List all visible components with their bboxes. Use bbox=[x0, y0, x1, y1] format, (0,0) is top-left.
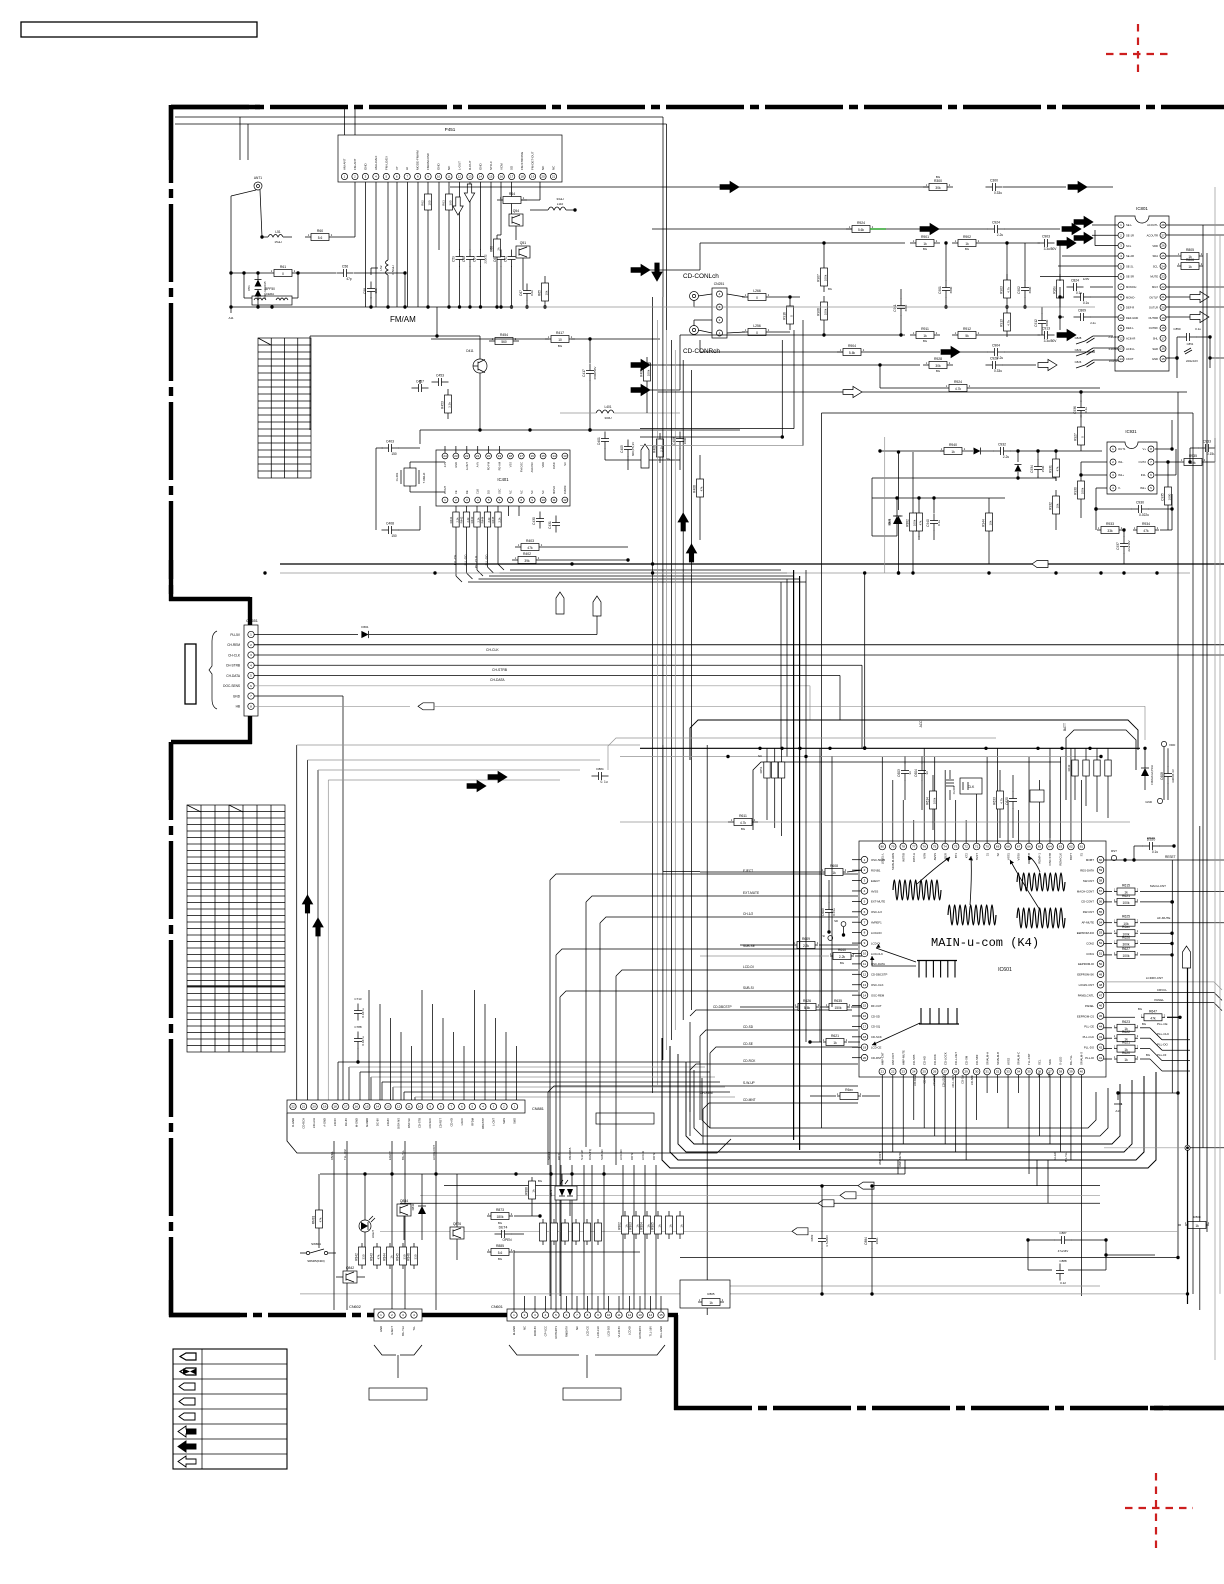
resistor R944 10k bbox=[982, 498, 993, 564]
svg-text:R873: R873 bbox=[496, 1208, 504, 1212]
verticals left of IC601 bbox=[663, 570, 832, 1315]
svg-text:CN602: CN602 bbox=[349, 1305, 361, 1309]
svg-text:GND: GND bbox=[454, 462, 458, 468]
svg-text:R640: R640 bbox=[838, 948, 846, 952]
filter caps C901 6800 bbox=[938, 241, 953, 308]
svg-text:2-2u/50V: 2-2u/50V bbox=[1108, 335, 1119, 339]
svg-text:72: 72 bbox=[964, 845, 968, 849]
blank box under CN601 bbox=[563, 1388, 621, 1400]
svg-text:CD-SM: CD-SM bbox=[961, 1074, 965, 1084]
transistor Q876 bbox=[450, 1174, 464, 1260]
svg-text:5.6: 5.6 bbox=[318, 236, 323, 240]
svg-text:D401: D401 bbox=[597, 437, 601, 445]
resistor R934 47k bbox=[1133, 509, 1172, 534]
svg-text:EXT-MUTE: EXT-MUTE bbox=[743, 891, 759, 895]
svg-text:TLL: TLL bbox=[412, 1326, 416, 1331]
svg-text:1k: 1k bbox=[832, 871, 836, 875]
svg-text:CD-CONRch: CD-CONRch bbox=[683, 348, 720, 355]
svg-text:BG: BG bbox=[1142, 1022, 1146, 1026]
legend table of wire-tag symbols bbox=[173, 1349, 287, 1469]
svg-text:R625: R625 bbox=[1122, 915, 1130, 919]
input coupling caps C824/C820/C809 bbox=[1058, 277, 1118, 330]
svg-text:18: 18 bbox=[334, 1105, 338, 1109]
svg-text:KT2: KT2 bbox=[964, 853, 968, 859]
svg-text:0.15u: 0.15u bbox=[1207, 452, 1215, 456]
svg-text:R802: R802 bbox=[618, 1222, 622, 1230]
svg-text:C824: C824 bbox=[1071, 279, 1079, 283]
svg-text:IN2-: IN2- bbox=[1141, 473, 1146, 477]
svg-text:CD-STB: CD-STB bbox=[912, 1054, 916, 1065]
wire horizontal main rail y564 bbox=[280, 562, 1224, 565]
svg-text:12: 12 bbox=[628, 1313, 632, 1317]
svg-text:SP/ALM-A: SP/ALM-A bbox=[985, 1052, 989, 1065]
svg-text:15: 15 bbox=[489, 175, 493, 179]
svg-text:AM-LO/EX: AM-LO/EX bbox=[374, 156, 378, 170]
svg-text:11: 11 bbox=[1119, 326, 1122, 330]
svg-text:SDA: SDA bbox=[1152, 254, 1158, 258]
capacitor C924 2.2u bbox=[988, 221, 1061, 238]
resistor R935 10k bbox=[1155, 438, 1215, 466]
resistor R885 5.6 bbox=[487, 1244, 640, 1261]
svg-text:5-6k: 5-6k bbox=[849, 351, 856, 355]
tuner pin pulldown components row bbox=[366, 182, 516, 309]
Rch filter network R911/R912 bbox=[631, 327, 1076, 396]
resistor R611 4.7k BG bbox=[620, 814, 1130, 831]
svg-text:AMP-CNT: AMP-CNT bbox=[881, 1052, 885, 1065]
resistor R647 47k bbox=[1104, 1007, 1182, 1021]
svg-text:BG: BG bbox=[741, 827, 745, 831]
capacitor C63 0.022 bbox=[519, 284, 534, 309]
svg-text:BG: BG bbox=[828, 287, 832, 291]
svg-text:38: 38 bbox=[1059, 1070, 1063, 1074]
svg-text:13: 13 bbox=[386, 1105, 390, 1109]
resistor R66 2k bbox=[490, 235, 502, 309]
svg-text:68: 68 bbox=[1006, 845, 1010, 849]
comb mark upper inside IC601 bbox=[917, 960, 957, 962]
svg-text:CD-SM: CD-SM bbox=[964, 1055, 968, 1065]
svg-text:FM-ANT: FM-ANT bbox=[353, 159, 357, 170]
svg-text:S-LED: S-LED bbox=[1053, 1152, 1057, 1160]
wire under top frame to CN251 feed bbox=[175, 117, 667, 330]
svg-text:R916: R916 bbox=[783, 312, 787, 320]
wires IC601 left pin leads bbox=[852, 860, 861, 1058]
svg-text:DSP-SC: DSP-SC bbox=[407, 1118, 411, 1128]
registration cross top-right (red) bbox=[1106, 24, 1171, 74]
svg-text:SP/ALM-S: SP/ALM-S bbox=[1080, 1052, 1084, 1065]
svg-text:BG: BG bbox=[498, 1257, 502, 1261]
svg-text:16: 16 bbox=[500, 175, 504, 179]
wire top rail y339 bbox=[431, 338, 549, 340]
resistor R888 1k bbox=[525, 1177, 543, 1216]
svg-text:R621: R621 bbox=[1122, 894, 1130, 898]
svg-text:20: 20 bbox=[487, 454, 491, 458]
svg-text:CON2: CON2 bbox=[1086, 941, 1094, 945]
svg-text:VDD: VDD bbox=[1152, 244, 1158, 248]
svg-text:66: 66 bbox=[1027, 845, 1031, 849]
svg-text:CD-REM: CD-REM bbox=[913, 1074, 917, 1086]
svg-text:C903: C903 bbox=[1042, 235, 1050, 239]
resistor R402 39k bbox=[512, 552, 630, 564]
legend symbol row6 half-filled arrow bbox=[178, 1426, 196, 1437]
svg-text:NC: NC bbox=[758, 754, 762, 758]
svg-text:R453: R453 bbox=[441, 401, 445, 409]
svg-text:EJECT: EJECT bbox=[390, 1326, 394, 1335]
svg-text:C850: C850 bbox=[1173, 327, 1181, 331]
IC IC801 (DIP-28 audio processor) bbox=[1115, 206, 1169, 371]
svg-text:AM-OSC: AM-OSC bbox=[530, 462, 534, 473]
svg-text:MACH-CNT: MACH-CNT bbox=[1150, 884, 1166, 888]
svg-text:150: 150 bbox=[391, 452, 397, 456]
wire rail y451 to IC931 bbox=[878, 449, 944, 452]
svg-text:D51: D51 bbox=[247, 285, 251, 291]
svg-text:28: 28 bbox=[954, 1070, 958, 1074]
svg-text:10: 10 bbox=[607, 1313, 611, 1317]
svg-text:OUTRR: OUTRR bbox=[1148, 316, 1158, 320]
diode D601 FM/AM-G2 PS/H bbox=[1141, 747, 1175, 800]
svg-text:EEPROM-CS: EEPROM-CS bbox=[1077, 1014, 1094, 1018]
FET Q411 (D411) bbox=[466, 349, 487, 430]
svg-text:R904: R904 bbox=[848, 344, 856, 348]
svg-text:CH-DATA: CH-DATA bbox=[226, 674, 241, 678]
svg-text:LCD-DO: LCD-DO bbox=[607, 1326, 611, 1336]
svg-text:SUB-SE: SUB-SE bbox=[743, 944, 755, 948]
svg-text:10: 10 bbox=[1119, 316, 1123, 320]
svg-text:60: 60 bbox=[1099, 858, 1103, 862]
wire CH-DATA with label bbox=[255, 676, 841, 721]
svg-text:C620: C620 bbox=[1005, 797, 1009, 805]
svg-text:AMP-MUTE: AMP-MUTE bbox=[901, 1050, 905, 1065]
varactor VT line resistor R64 bbox=[497, 182, 540, 204]
svg-text:A-GND: A-GND bbox=[323, 1118, 327, 1127]
resistor row R842-R846 bbox=[355, 1243, 418, 1269]
svg-text:76: 76 bbox=[923, 845, 927, 849]
wire CD gnd mid rail bbox=[860, 306, 1095, 308]
svg-text:17: 17 bbox=[510, 175, 514, 179]
svg-text:MUTE: MUTE bbox=[1150, 275, 1158, 279]
svg-text:L-CNT: L-CNT bbox=[491, 1118, 495, 1126]
svg-text:4.7k: 4.7k bbox=[955, 387, 961, 391]
svg-text:PLL-DI: PLL-DI bbox=[1157, 1053, 1167, 1057]
svg-text:R300: R300 bbox=[934, 179, 942, 183]
svg-text:R843: R843 bbox=[370, 1253, 374, 1261]
svg-text:CD-LOCK: CD-LOCK bbox=[943, 1052, 947, 1065]
svg-text:6800: 6800 bbox=[904, 304, 908, 311]
svg-text:CD-SQ: CD-SQ bbox=[871, 1025, 881, 1029]
resistor R805 1k bbox=[1166, 248, 1203, 260]
wire CD L-ch feed bbox=[727, 294, 745, 333]
svg-text:22: 22 bbox=[1161, 285, 1165, 289]
resistor column x625-x658 bbox=[618, 1211, 684, 1239]
power bus ACC above IC601 (rounded corners) bbox=[608, 720, 1138, 830]
svg-text:23: 23 bbox=[454, 454, 458, 458]
svg-text:19: 19 bbox=[323, 1105, 327, 1109]
svg-text:Q51: Q51 bbox=[520, 241, 527, 245]
svg-text:1k: 1k bbox=[669, 1224, 673, 1228]
caps C604/C605 top bbox=[897, 757, 929, 811]
svg-text:Q842: Q842 bbox=[346, 1266, 354, 1270]
resistor R873 180k bbox=[487, 1208, 542, 1225]
capacitor D884 0.1u mid bbox=[592, 767, 609, 784]
svg-text:C884: C884 bbox=[864, 1237, 868, 1245]
capacitor C605 0.01u bbox=[821, 880, 836, 934]
capacitor C430 cluster bbox=[509, 506, 561, 533]
svg-text:OUT1: OUT1 bbox=[1118, 447, 1126, 451]
connector CN601 bbox=[491, 1305, 668, 1338]
svg-text:CD-FOK: CD-FOK bbox=[933, 1054, 937, 1065]
svg-text:VSN: VSN bbox=[922, 853, 926, 859]
wires IC601 bottom pin leads into wrap bus bbox=[882, 1075, 1081, 1296]
svg-text:0.1u: 0.1u bbox=[937, 520, 941, 526]
pullup resistors R651-R653 100k bbox=[758, 748, 785, 836]
svg-text:C788: C788 bbox=[354, 1025, 362, 1029]
svg-text:20: 20 bbox=[1161, 306, 1165, 310]
svg-text:C64: C64 bbox=[473, 256, 477, 262]
svg-text:31: 31 bbox=[985, 1070, 989, 1074]
svg-text:CN251: CN251 bbox=[714, 282, 725, 286]
svg-text:C430: C430 bbox=[532, 517, 536, 525]
Lch filter network R901/R902 bbox=[631, 235, 1076, 276]
capacitor C883 4.7u/50V bbox=[810, 1184, 829, 1295]
svg-text:CD-LOCK: CD-LOCK bbox=[942, 1075, 946, 1087]
resistor R608 1k left of pin2 bbox=[700, 864, 862, 876]
svg-text:47k: 47k bbox=[1056, 466, 1060, 471]
svg-text:18: 18 bbox=[509, 454, 513, 458]
svg-text:0: 0 bbox=[756, 331, 758, 335]
svg-text:DEF-GND: DEF-GND bbox=[1126, 316, 1138, 320]
svg-text:3.3k: 3.3k bbox=[448, 402, 452, 408]
wire horizontals into cn881 zone bbox=[338, 1062, 735, 1104]
svg-text:OSC-STB: OSC-STB bbox=[1048, 853, 1052, 866]
wire HB with tag bbox=[255, 703, 1146, 740]
svg-text:3-3u/50V: 3-3u/50V bbox=[1108, 347, 1119, 351]
svg-text:VCM: VCM bbox=[499, 163, 503, 170]
svg-text:DEF-L: DEF-L bbox=[1126, 326, 1134, 330]
svg-text:RM-DATA: RM-DATA bbox=[568, 1148, 572, 1160]
wire drops below cluster to CN601 bbox=[514, 1250, 661, 1311]
svg-text:CD-L-DET: CD-L-DET bbox=[951, 1075, 955, 1088]
svg-text:C940: C940 bbox=[926, 519, 930, 527]
legend symbol row3 tag bbox=[179, 1383, 195, 1390]
svg-text:75: 75 bbox=[933, 845, 937, 849]
svg-text:100k: 100k bbox=[1081, 487, 1085, 494]
legend symbol row5 tag bbox=[179, 1413, 195, 1420]
svg-text:FM/AM-G2,PS/H: FM/AM-G2,PS/H bbox=[1150, 765, 1154, 785]
wires IC601 top pin leads bbox=[882, 748, 1081, 843]
svg-text:51: 51 bbox=[1099, 952, 1103, 956]
wire bus above IC401 bbox=[310, 307, 480, 430]
svg-text:70: 70 bbox=[985, 845, 989, 849]
svg-text:DSP-12V/415: DSP-12V/415 bbox=[263, 281, 267, 299]
svg-text:AVSS: AVSS bbox=[933, 853, 937, 860]
pullups right R643-R646 bbox=[1067, 748, 1111, 818]
svg-text:SHR: SHR bbox=[1152, 347, 1158, 351]
svg-text:R623: R623 bbox=[1122, 1020, 1130, 1024]
capacitor C403 bbox=[376, 440, 399, 531]
svg-text:V-: V- bbox=[1118, 486, 1121, 490]
reset circuit Q602/C620 bbox=[1005, 775, 1050, 838]
svg-text:GND: GND bbox=[1145, 800, 1153, 804]
svg-text:MODE-FM/AM: MODE-FM/AM bbox=[416, 150, 420, 170]
resistor R635 150k bbox=[826, 999, 862, 1011]
svg-text:1k: 1k bbox=[1188, 265, 1192, 269]
svg-text:EEPROM-DI: EEPROM-DI bbox=[1078, 962, 1094, 966]
svg-text:R-OUT: R-OUT bbox=[468, 160, 472, 170]
svg-text:OUTLR: OUTLR bbox=[1149, 306, 1158, 310]
svg-text:0: 0 bbox=[282, 272, 284, 276]
svg-text:X-OUT: X-OUT bbox=[443, 486, 447, 494]
svg-text:69: 69 bbox=[996, 845, 1000, 849]
svg-text:1500: 1500 bbox=[1041, 465, 1045, 472]
svg-text:FM/AM: FM/AM bbox=[390, 315, 416, 324]
wire GND drop bbox=[255, 696, 344, 1104]
svg-text:PLL-DI: PLL-DI bbox=[1085, 1056, 1094, 1060]
PLL IC401 (DIP-24) bbox=[436, 446, 570, 506]
svg-text:R445: R445 bbox=[491, 516, 495, 523]
arrow up on bus 2 bbox=[686, 544, 696, 562]
wire rail y757 above IC601 bbox=[620, 755, 1103, 758]
capacitor C930 0.022u feedback bbox=[1094, 494, 1173, 517]
svg-text:C608: C608 bbox=[1160, 772, 1164, 780]
svg-text:NC: NC bbox=[541, 490, 545, 494]
svg-text:L51: L51 bbox=[275, 230, 281, 234]
svg-text:560: 560 bbox=[501, 340, 507, 344]
svg-text:M-GND: M-GND bbox=[354, 1118, 358, 1127]
svg-text:22: 22 bbox=[891, 1070, 895, 1074]
svg-text:SI: SI bbox=[822, 934, 825, 938]
svg-text:55: 55 bbox=[1099, 910, 1103, 914]
capacitor C64 220p/32V bbox=[480, 250, 482, 257]
svg-text:R804: R804 bbox=[640, 1222, 644, 1230]
svg-text:MONOH: MONOH bbox=[1126, 285, 1136, 289]
pll supply tag bbox=[641, 444, 649, 468]
svg-text:CD-5V: CD-5V bbox=[333, 1118, 337, 1126]
svg-text:R633: R633 bbox=[993, 797, 997, 805]
svg-text:DE: DE bbox=[465, 490, 469, 494]
svg-text:330: 330 bbox=[414, 1254, 418, 1259]
svg-text:R888: R888 bbox=[525, 1187, 529, 1195]
svg-text:2-2u: 2-2u bbox=[1090, 321, 1096, 325]
svg-text:5.6k: 5.6k bbox=[858, 228, 864, 232]
svg-text:ACIN-L: ACIN-L bbox=[1126, 347, 1135, 351]
svg-text:C930: C930 bbox=[1136, 501, 1144, 505]
svg-text:L401: L401 bbox=[604, 405, 611, 409]
svg-text:0.047u: 0.047u bbox=[361, 1008, 365, 1018]
svg-text:3.3u/50V: 3.3u/50V bbox=[1044, 339, 1058, 343]
svg-text:S2: S2 bbox=[996, 853, 1000, 857]
svg-text:5-6k: 5-6k bbox=[804, 1006, 811, 1010]
resistor R916 0 vertical bbox=[783, 295, 794, 330]
inductor L266 0 bbox=[742, 289, 800, 301]
svg-text:EJECT: EJECT bbox=[388, 1151, 392, 1160]
svg-text:100n: 100n bbox=[875, 1237, 879, 1244]
svg-text:11: 11 bbox=[552, 498, 555, 502]
svg-text:CLK: CLK bbox=[476, 489, 480, 494]
svg-text:C67: C67 bbox=[519, 290, 523, 296]
svg-text:ANT1: ANT1 bbox=[254, 176, 262, 180]
svg-text:R805: R805 bbox=[1186, 248, 1194, 252]
svg-text:LOCK: LOCK bbox=[460, 1118, 464, 1126]
svg-text:NC: NC bbox=[530, 490, 534, 494]
svg-text:CP-VCC: CP-VCC bbox=[544, 1326, 548, 1336]
svg-text:59: 59 bbox=[1099, 868, 1103, 872]
svg-text:TLL-16V: TLL-16V bbox=[343, 1149, 347, 1160]
svg-text:R912: R912 bbox=[963, 327, 971, 331]
svg-text:ACOUTR: ACOUTR bbox=[1147, 234, 1158, 238]
capacitor C913 3.3u/50V bbox=[1038, 327, 1058, 344]
svg-text:B/L-TLA: B/L-TLA bbox=[401, 1326, 405, 1336]
svg-text:CRVCL: CRVCL bbox=[1157, 988, 1167, 992]
svg-text:LCDIN-CNT: LCDIN-CNT bbox=[432, 1145, 436, 1160]
svg-text:BT1: BT1 bbox=[954, 853, 958, 859]
svg-text:20: 20 bbox=[541, 175, 545, 179]
legend symbol row8 outline arrow bbox=[178, 1456, 196, 1467]
svg-text:1k: 1k bbox=[1124, 1058, 1128, 1062]
svg-text:SHL: SHL bbox=[1153, 337, 1159, 341]
cap C902 6800 bbox=[1017, 243, 1032, 309]
svg-text:10: 10 bbox=[863, 952, 867, 956]
svg-text:OUTRF: OUTRF bbox=[1149, 326, 1159, 330]
resistor R65 10k bbox=[538, 276, 549, 309]
svg-text:BATT: BATT bbox=[1069, 853, 1073, 860]
svg-text:100k: 100k bbox=[1123, 901, 1130, 905]
svg-text:C60: C60 bbox=[462, 256, 466, 262]
svg-text:B/L-TLL: B/L-TLL bbox=[401, 1150, 405, 1160]
svg-text:R911: R911 bbox=[921, 327, 929, 331]
svg-text:1000: 1000 bbox=[1168, 493, 1172, 500]
svg-text:48: 48 bbox=[1099, 983, 1103, 987]
wire tag on rail y564 bbox=[1032, 561, 1048, 568]
svg-text:AM-ANT: AM-ANT bbox=[343, 158, 347, 170]
svg-text:10k: 10k bbox=[545, 290, 549, 295]
svg-text:C417: C417 bbox=[582, 369, 586, 377]
capacitor C300 0.33u bbox=[986, 179, 1114, 196]
svg-text:C932: C932 bbox=[998, 443, 1006, 447]
svg-text:1k: 1k bbox=[965, 242, 969, 246]
resistor R924 5.6k on mix line bbox=[652, 221, 988, 235]
svg-text:GND: GND bbox=[437, 163, 441, 171]
svg-text:39: 39 bbox=[1069, 1070, 1073, 1074]
IF output trap L110 33uH bbox=[530, 197, 577, 212]
svg-text:13: 13 bbox=[638, 1313, 642, 1317]
svg-text:220/32: 220/32 bbox=[484, 254, 488, 264]
resistor R903 4.7k bbox=[1000, 241, 1011, 308]
svg-text:2.2k: 2.2k bbox=[497, 517, 501, 523]
svg-text:M-8MD: M-8MD bbox=[365, 1118, 369, 1127]
arrow up on CN881 wire 2 bbox=[313, 918, 323, 936]
svg-text:4.7k: 4.7k bbox=[1000, 798, 1004, 804]
svg-text:R611: R611 bbox=[739, 814, 747, 818]
dual LED D876 bbox=[549, 1174, 577, 1216]
wire gnd bus tuner to right bbox=[510, 306, 860, 308]
connector shell rectangle bbox=[185, 644, 196, 704]
svg-text:IN1+: IN1+ bbox=[1118, 473, 1124, 477]
svg-text:2-2u: 2-2u bbox=[997, 233, 1004, 237]
svg-text:S-LED: S-LED bbox=[1059, 1057, 1063, 1065]
svg-text:MOBT: MOBT bbox=[1086, 858, 1094, 862]
svg-text:DC-8V: DC-8V bbox=[375, 1118, 379, 1126]
resistor R913 4.7k bbox=[1000, 307, 1011, 337]
svg-text:1k: 1k bbox=[923, 242, 927, 246]
svg-text:R417: R417 bbox=[556, 331, 564, 335]
svg-text:R64: R64 bbox=[509, 192, 515, 196]
harness brace for CN651 bbox=[209, 631, 217, 709]
svg-text:FM-OSC: FM-OSC bbox=[519, 462, 523, 472]
svg-text:IC801: IC801 bbox=[1136, 206, 1148, 211]
svg-text:L256: L256 bbox=[753, 324, 761, 328]
svg-text:SP/ALM-C: SP/ALM-C bbox=[1017, 1052, 1021, 1065]
wire IC401 left bbox=[398, 447, 420, 449]
svg-text:DOC-SENS: DOC-SENS bbox=[223, 684, 240, 688]
